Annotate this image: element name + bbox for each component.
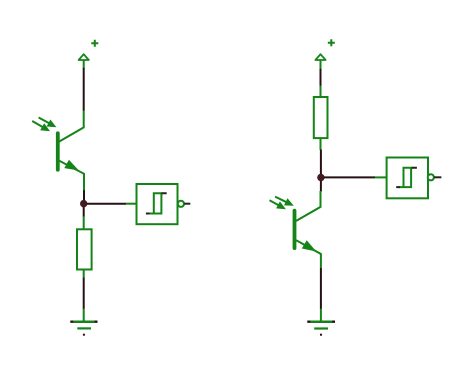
wire node B to U2 input bbox=[324, 176, 375, 178]
wire power to R2 bbox=[320, 69, 322, 86]
wire Q1 emitter to node A bbox=[83, 190, 85, 200]
wire power to Q1 collector bbox=[83, 68, 85, 111]
node B junction bbox=[317, 174, 324, 181]
wire node A to U1 input bbox=[87, 203, 127, 205]
wire R2 to node B bbox=[320, 150, 322, 175]
wire Q2 emitter to ground bbox=[320, 268, 322, 309]
power symbol +V right bbox=[315, 39, 334, 69]
wire node B to Q2 collector bbox=[320, 181, 322, 192]
node A junction bbox=[80, 200, 87, 207]
ground right bbox=[307, 309, 335, 335]
schmitt trigger inverter U2 bbox=[375, 158, 442, 199]
resistor R1 bbox=[77, 216, 92, 278]
power symbol +V left bbox=[79, 40, 99, 69]
wire R1 to ground bbox=[83, 278, 85, 309]
resistor R2 bbox=[314, 86, 328, 150]
schmitt trigger inverter U1 bbox=[126, 184, 191, 224]
wire node A to R1 bbox=[83, 207, 85, 217]
phototransistor Q2 bbox=[270, 191, 321, 269]
phototransistor Q1 bbox=[32, 111, 84, 191]
ground left bbox=[70, 309, 97, 335]
